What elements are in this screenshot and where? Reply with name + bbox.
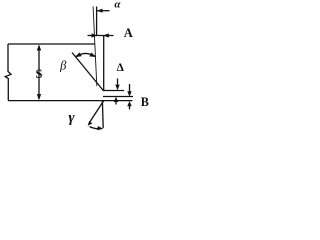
svg-text:α: α (114, 0, 121, 10)
svg-text:B: B (141, 95, 149, 109)
svg-text:β: β (59, 59, 67, 73)
svg-text:S: S (36, 67, 43, 81)
svg-text:γ: γ (68, 110, 75, 126)
svg-text:Δ: Δ (117, 62, 125, 74)
svg-text:A: A (124, 26, 133, 40)
